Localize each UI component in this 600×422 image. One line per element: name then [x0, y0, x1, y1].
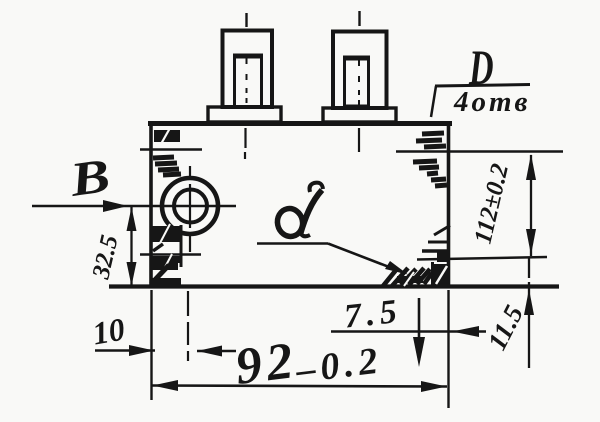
svg-text:92: 92 [232, 332, 300, 396]
svg-text:4отв: 4отв [453, 86, 531, 118]
svg-text:В: В [66, 148, 113, 207]
svg-text:10: 10 [90, 310, 128, 351]
svg-text:7.5: 7.5 [342, 293, 403, 336]
